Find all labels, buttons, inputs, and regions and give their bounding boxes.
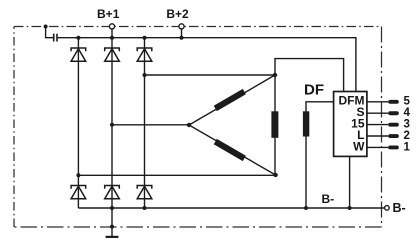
svg-text:3: 3 (404, 119, 410, 131)
svg-text:B-: B- (393, 201, 406, 215)
svg-text:DF: DF (304, 82, 324, 99)
svg-text:4: 4 (404, 107, 411, 119)
svg-text:B+2: B+2 (166, 7, 189, 21)
svg-text:B+1: B+1 (97, 7, 120, 21)
svg-text:1: 1 (404, 141, 411, 153)
svg-text:5: 5 (404, 96, 411, 108)
svg-text:2: 2 (404, 130, 410, 142)
svg-text:B-: B- (322, 192, 335, 206)
svg-text:W: W (353, 139, 365, 153)
